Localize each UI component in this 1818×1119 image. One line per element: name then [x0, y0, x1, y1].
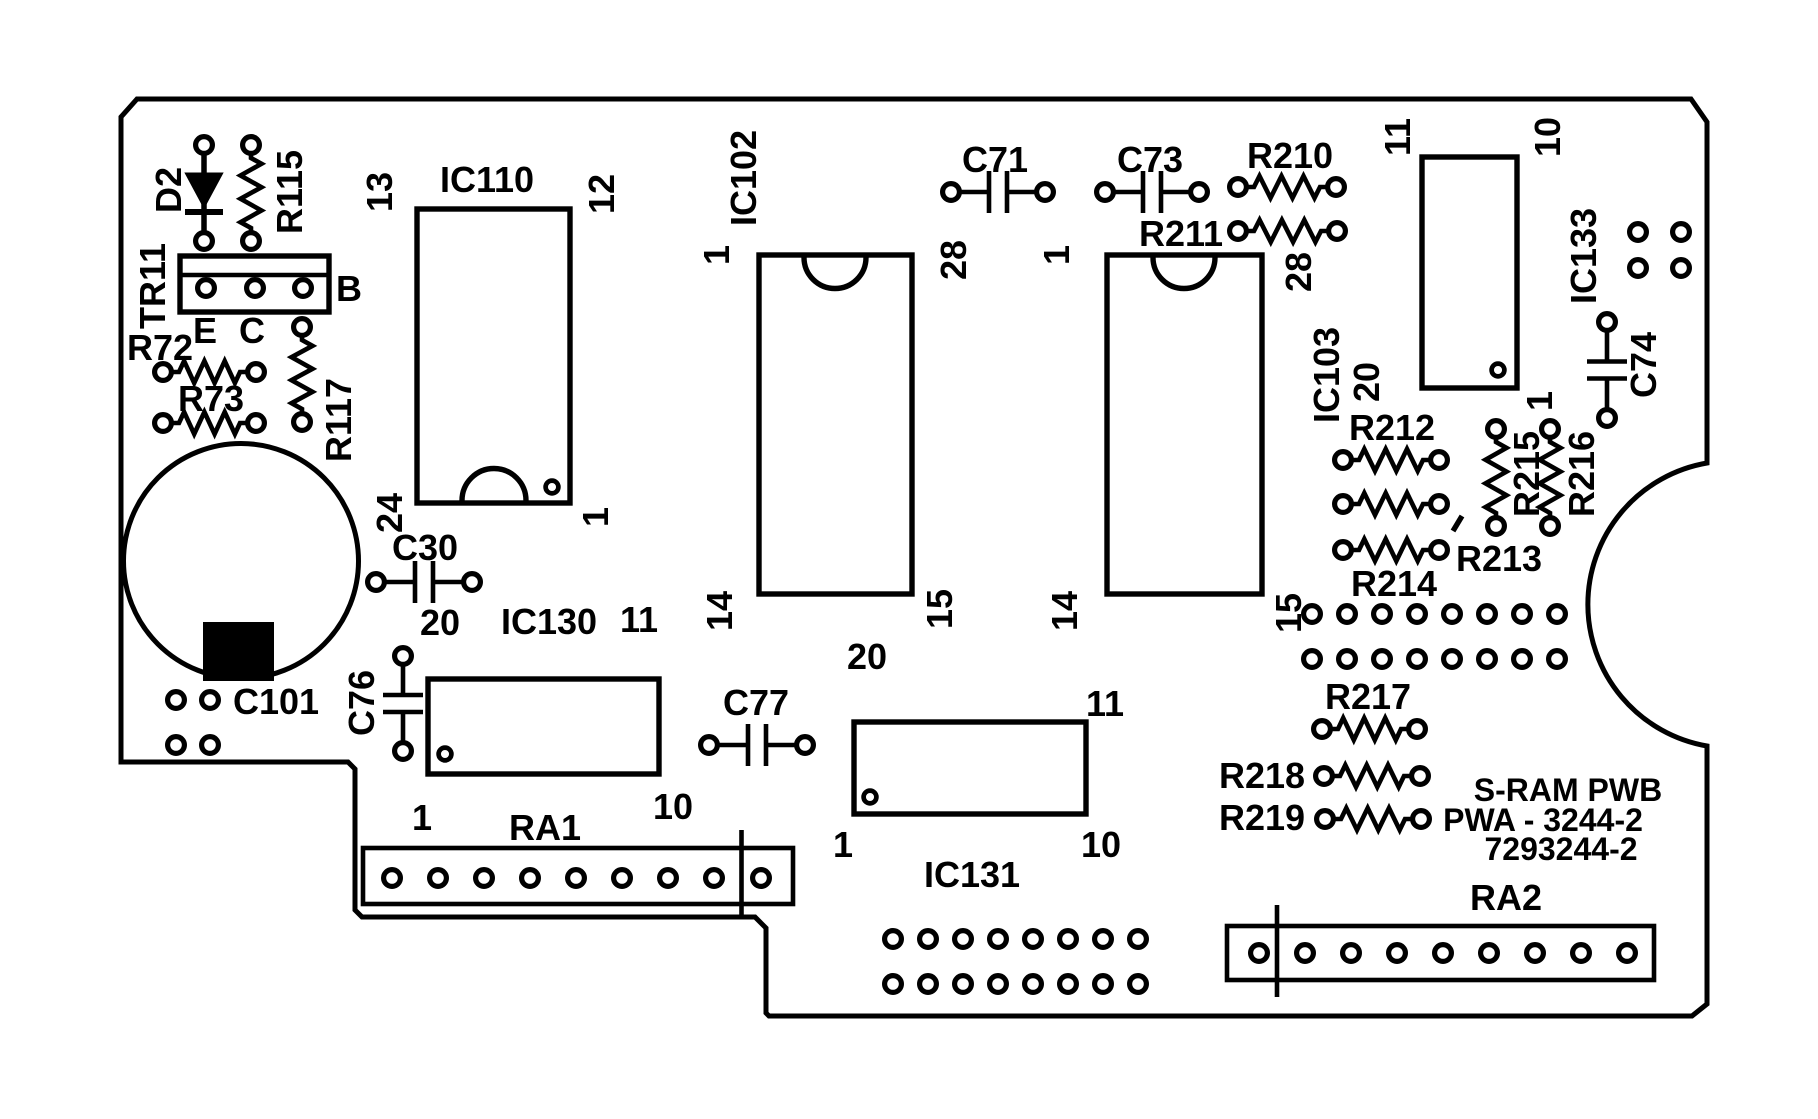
svg-text:RA1: RA1 [509, 807, 581, 848]
board outline [121, 99, 1707, 1016]
IC U-IC131 [854, 722, 1086, 814]
svg-text:11: 11 [1086, 683, 1124, 724]
capacitor C76 [383, 648, 423, 760]
pad grid top-right 3 [1630, 260, 1647, 277]
pad grid bottom (2x8) [885, 931, 1147, 993]
resistor R218 [1316, 765, 1429, 787]
resistor R115 [241, 137, 262, 250]
svg-text:28: 28 [933, 240, 974, 280]
svg-text:14: 14 [1044, 591, 1085, 631]
svg-text:20: 20 [420, 602, 460, 643]
svg-text:11: 11 [1377, 118, 1418, 156]
C101 pad 1 [168, 692, 185, 709]
resistor R219 [1317, 808, 1430, 830]
capacitor C101 [124, 444, 359, 682]
resistor R73 [155, 412, 265, 434]
transistor TR11 [180, 256, 329, 312]
capacitor C30 [368, 561, 481, 603]
svg-text:R73: R73 [178, 378, 244, 419]
resistor R211 [1230, 220, 1346, 242]
resistor array RA1 [363, 830, 793, 919]
svg-text:15: 15 [919, 589, 960, 629]
capacitor C73 [1097, 171, 1208, 213]
svg-text:1: 1 [575, 507, 616, 527]
resistor array RA2 [1227, 905, 1654, 997]
svg-text:R219: R219 [1219, 797, 1305, 838]
svg-text:R217: R217 [1325, 676, 1411, 717]
resistor R212 [1335, 449, 1448, 471]
svg-text:R216: R216 [1561, 431, 1602, 517]
svg-text:C30: C30 [392, 527, 458, 568]
svg-text:R115: R115 [269, 150, 310, 234]
resistor R72 [155, 361, 265, 383]
resistor R217 [1314, 718, 1426, 740]
IC U-IC103 [1107, 255, 1262, 594]
IC U-IC133 [1422, 157, 1517, 388]
svg-text:11: 11 [620, 599, 658, 640]
capacitor C71 [943, 171, 1054, 213]
svg-text:R212: R212 [1349, 407, 1435, 448]
pad grid top-right 4 [1673, 260, 1690, 277]
svg-text:28: 28 [1278, 252, 1319, 292]
svg-text:1: 1 [696, 245, 737, 265]
svg-text:IC131: IC131 [924, 854, 1020, 895]
svg-text:C101: C101 [233, 681, 319, 722]
svg-text:7293244-2: 7293244-2 [1484, 831, 1637, 867]
resistor R213 [1335, 493, 1448, 515]
svg-text:C77: C77 [723, 682, 789, 723]
svg-text:E: E [193, 310, 217, 351]
R213 leader tick [1453, 516, 1462, 531]
svg-text:1: 1 [1519, 391, 1560, 411]
pad grid top-right 1 [1630, 224, 1647, 241]
IC U-IC110 [417, 209, 570, 503]
svg-text:1: 1 [1036, 245, 1077, 265]
pad grid right (2x8) [1304, 606, 1566, 668]
svg-text:D2: D2 [148, 167, 189, 213]
svg-text:C73: C73 [1117, 139, 1183, 180]
svg-text:IC130: IC130 [501, 601, 597, 642]
svg-text:IC102: IC102 [723, 130, 764, 226]
C101 pad 2 [202, 692, 219, 709]
svg-text:1: 1 [412, 797, 432, 838]
resistor R117 [292, 319, 313, 431]
svg-text:TR11: TR11 [132, 243, 173, 329]
svg-text:C71: C71 [962, 139, 1028, 180]
svg-text:C74: C74 [1623, 332, 1664, 398]
capacitor C74 [1587, 314, 1627, 427]
IC U-IC102 [759, 255, 912, 594]
svg-text:1: 1 [833, 824, 853, 865]
svg-text:R210: R210 [1247, 135, 1333, 176]
svg-text:C76: C76 [341, 670, 382, 736]
C101 pad 3 [168, 737, 185, 754]
resistor R214 [1335, 539, 1448, 561]
capacitor C77 [701, 724, 814, 766]
svg-text:RA2: RA2 [1470, 877, 1542, 918]
resistor R216 [1540, 421, 1561, 535]
svg-text:IC103: IC103 [1306, 327, 1347, 423]
pad grid top-right 2 [1673, 224, 1690, 241]
svg-text:IC110: IC110 [440, 159, 534, 200]
svg-text:20: 20 [847, 636, 887, 677]
IC U-IC130 [428, 679, 659, 774]
svg-text:R218: R218 [1219, 755, 1305, 796]
svg-text:R213: R213 [1456, 538, 1542, 579]
C101 pad 4 [202, 737, 219, 754]
svg-text:R214: R214 [1351, 563, 1437, 604]
svg-text:12: 12 [581, 174, 622, 214]
svg-text:20: 20 [1346, 362, 1387, 402]
svg-text:10: 10 [1081, 824, 1121, 865]
svg-text:13: 13 [359, 172, 400, 212]
svg-text:14: 14 [699, 591, 740, 631]
svg-text:10: 10 [1527, 117, 1568, 157]
svg-text:R117: R117 [318, 378, 359, 462]
svg-text:R211: R211 [1139, 213, 1223, 254]
svg-text:C: C [239, 310, 265, 351]
svg-text:R72: R72 [127, 327, 193, 368]
svg-text:B: B [336, 268, 362, 309]
diode D2 [185, 137, 223, 250]
svg-text:IC133: IC133 [1563, 208, 1604, 304]
resistor R215 [1486, 421, 1507, 535]
resistor R210 [1230, 176, 1345, 198]
svg-text:10: 10 [653, 786, 693, 827]
